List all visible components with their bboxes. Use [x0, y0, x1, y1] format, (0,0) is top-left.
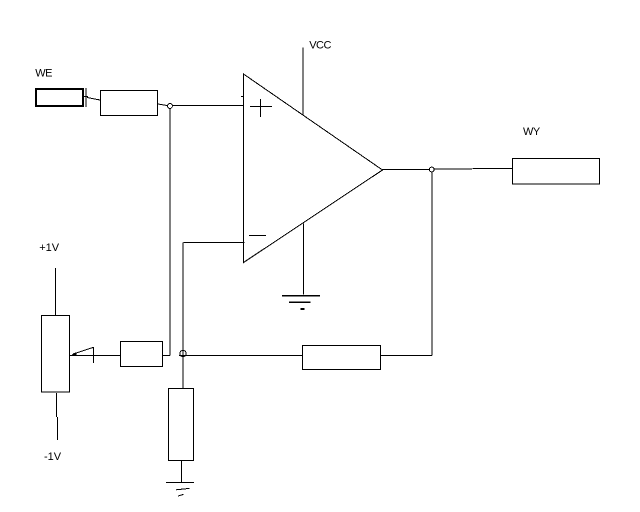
svg-text:+1V: +1V — [39, 242, 60, 254]
svg-text:VCC: VCC — [309, 40, 331, 52]
svg-text:-1V: -1V — [44, 451, 62, 463]
svg-text:WE: WE — [35, 68, 52, 80]
svg-text:WY: WY — [523, 126, 541, 138]
